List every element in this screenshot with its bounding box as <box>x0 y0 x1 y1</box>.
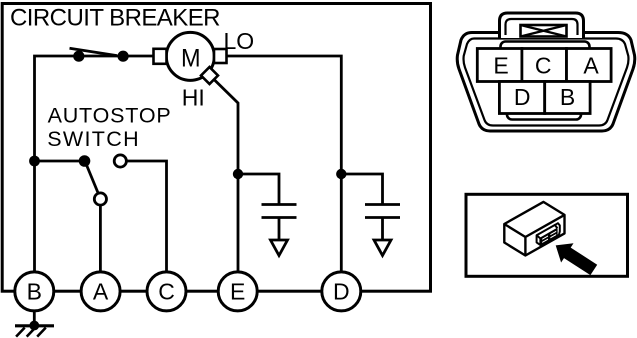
svg-text:A: A <box>93 279 109 305</box>
svg-text:SWITCH: SWITCH <box>47 127 140 151</box>
svg-text:C: C <box>535 53 552 79</box>
svg-text:D: D <box>333 279 350 305</box>
svg-text:C: C <box>158 279 175 305</box>
svg-text:E: E <box>230 279 245 305</box>
svg-text:CIRCUIT BREAKER: CIRCUIT BREAKER <box>10 4 221 31</box>
svg-text:LO: LO <box>224 28 255 54</box>
svg-text:HI: HI <box>182 85 205 111</box>
svg-text:E: E <box>493 52 508 78</box>
svg-text:M: M <box>181 45 201 73</box>
svg-text:B: B <box>27 279 42 305</box>
svg-text:D: D <box>514 84 531 110</box>
svg-text:A: A <box>583 52 599 78</box>
svg-text:AUTOSTOP: AUTOSTOP <box>48 104 172 128</box>
svg-text:B: B <box>560 84 575 110</box>
